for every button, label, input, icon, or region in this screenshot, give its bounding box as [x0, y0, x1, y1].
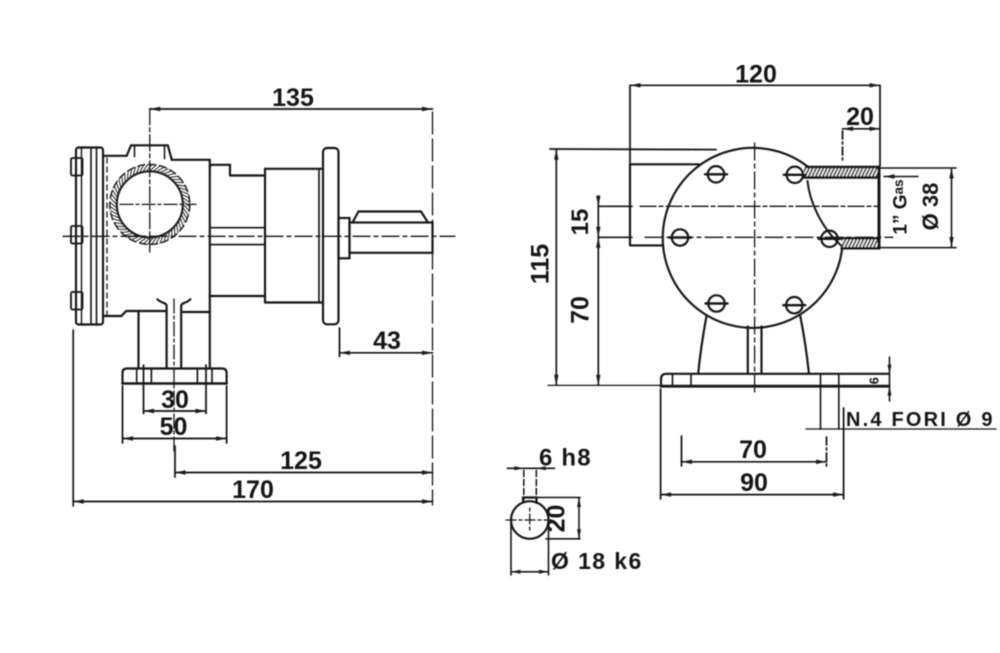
- dim 30: [144, 365, 207, 414]
- pump body outline: [103, 156, 210, 316]
- shaft collar: [339, 218, 350, 258]
- shaft centerline: [63, 235, 455, 237]
- svg-text:120: 120: [735, 61, 777, 89]
- LEFT VIEW: [63, 84, 455, 506]
- suction pipe right wall: [181, 299, 190, 368]
- thread hatch ring: [110, 165, 189, 244]
- svg-text:20: 20: [543, 505, 571, 533]
- svg-text:135: 135: [272, 84, 314, 112]
- dim 15 and 70 vertical: [596, 196, 632, 386]
- bolt right: [819, 231, 841, 247]
- plate thickness dim 6: [888, 357, 892, 401]
- bolt bottom-left: [706, 295, 728, 311]
- leader 1 inch Gas: [884, 174, 918, 178]
- shaft circle centerline: [506, 519, 552, 521]
- dim 125: [175, 446, 433, 477]
- foot plate right view: [661, 374, 889, 387]
- svg-text:70: 70: [567, 296, 595, 324]
- casing flat top / 115 extension: [550, 148, 716, 151]
- bolt top-right: [784, 167, 806, 183]
- svg-text:6 h8: 6 h8: [539, 445, 592, 472]
- suction port inner circle: [117, 171, 183, 237]
- flange bolt tab middle: [71, 226, 83, 244]
- casing circle (arc, interrupted at discharge port): [663, 148, 843, 328]
- front flange plate: [76, 148, 103, 325]
- main vertical centerline: [754, 143, 756, 395]
- port horizontal centerline: [120, 203, 196, 205]
- dim 170: [73, 330, 432, 506]
- svg-text:43: 43: [373, 327, 401, 355]
- main horizontal centerline: [645, 236, 893, 238]
- shaft circle: [511, 501, 549, 539]
- svg-text:125: 125: [280, 447, 322, 475]
- dim 135: [150, 107, 433, 111]
- mounting hole lines (to leader): [821, 374, 839, 429]
- shaft key: [353, 212, 429, 223]
- thread outer circle (dashed): [110, 164, 190, 244]
- bearing housing: [265, 169, 323, 303]
- hidden joint line (dashed): [106, 158, 108, 320]
- svg-text:N.4 FORI Ø 9: N.4 FORI Ø 9: [846, 409, 995, 431]
- dim O18 k6: [511, 521, 549, 575]
- dim 115: [548, 149, 661, 385]
- dim 90: [661, 389, 844, 499]
- dim 20 key: [537, 498, 581, 539]
- svg-text:50: 50: [160, 413, 188, 441]
- right support leg: [800, 316, 809, 373]
- top tab on mid section: [210, 165, 230, 176]
- foot column right: [209, 310, 211, 369]
- leader N.4 FORI: [806, 428, 996, 430]
- bolt left: [669, 229, 691, 245]
- svg-text:30: 30: [161, 386, 189, 414]
- foot plate: [123, 369, 227, 384]
- pipe centerline: [173, 299, 175, 452]
- svg-text:Ø 18 k6: Ø 18 k6: [551, 548, 643, 574]
- key cross-section: [523, 498, 537, 504]
- foot column left: [137, 311, 139, 369]
- port horizontal centerline: [640, 205, 878, 207]
- dim 120: [630, 83, 880, 166]
- dim 43: [340, 328, 433, 357]
- mid section: [210, 176, 265, 297]
- bolt top-left: [705, 166, 727, 182]
- extension line right (long, dashed): [432, 112, 434, 505]
- body bottom right edge: [183, 311, 210, 313]
- RIGHT VIEW: [527, 61, 997, 500]
- dim 6 h8: [507, 466, 554, 500]
- dim O38: [881, 168, 956, 248]
- rear flange: [323, 148, 339, 324]
- svg-text:6: 6: [867, 377, 882, 384]
- top boss: [127, 145, 172, 160]
- svg-text:70: 70: [739, 436, 767, 464]
- svg-text:90: 90: [740, 469, 768, 497]
- support column: [748, 327, 762, 373]
- shaft: [350, 223, 433, 253]
- dim 50: [123, 386, 227, 443]
- flange bolt tab bottom: [71, 292, 83, 310]
- svg-text:20: 20: [846, 103, 874, 131]
- left support leg: [698, 317, 706, 373]
- dim 70 foot: [682, 436, 827, 466]
- dim 20: [843, 127, 881, 160]
- shaft vertical center dash: [529, 508, 531, 532]
- flange bolt tab top: [71, 158, 83, 176]
- port vertical centerline: [149, 109, 151, 252]
- suction flange block: [630, 164, 699, 245]
- svg-text:15: 15: [567, 209, 594, 236]
- suction pipe left wall: [157, 299, 166, 368]
- bolt bottom-right: [783, 297, 805, 313]
- SHAFT END DETAIL: [506, 445, 643, 576]
- svg-text:Ø 38: Ø 38: [918, 183, 943, 231]
- svg-text:170: 170: [232, 476, 274, 504]
- discharge port: [804, 167, 879, 248]
- svg-text:115: 115: [527, 244, 555, 284]
